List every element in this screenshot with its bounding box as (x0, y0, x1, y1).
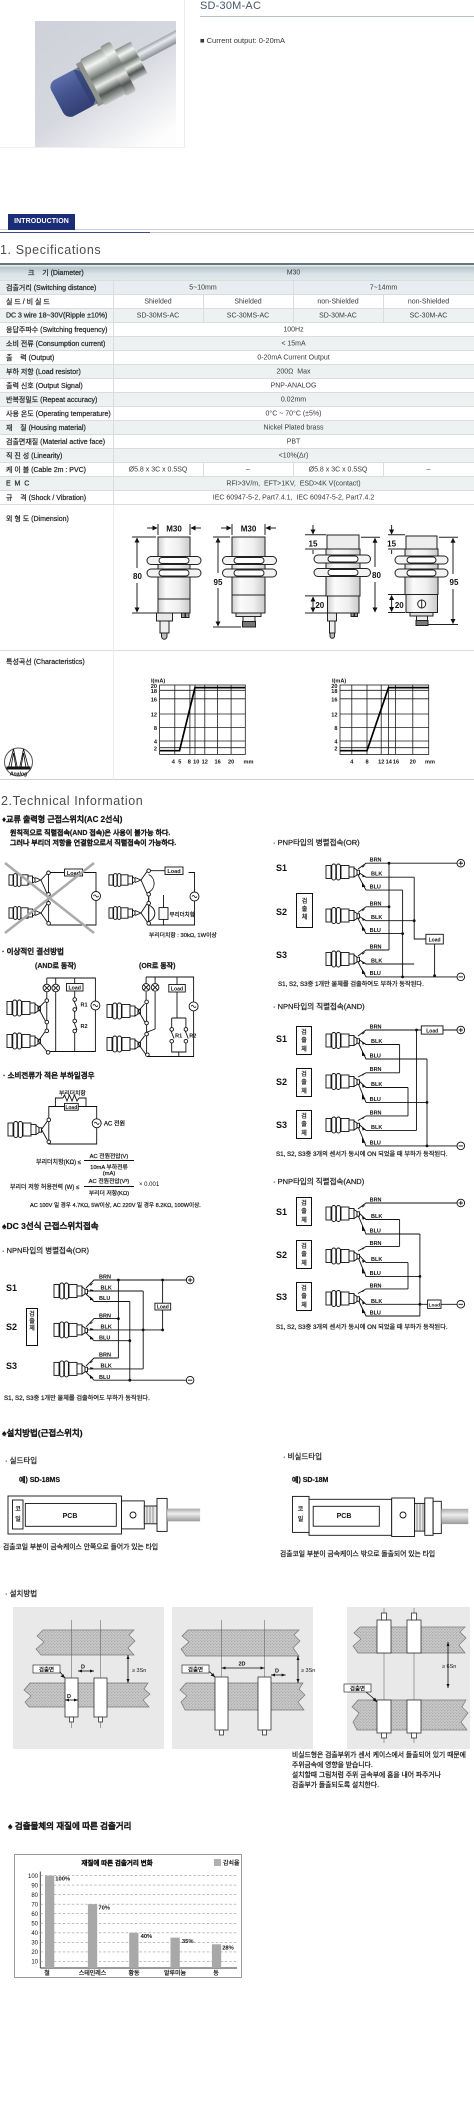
svg-text:D: D (275, 1669, 279, 1675)
arcs right (149, 875, 154, 893)
svg-text:14: 14 (386, 760, 393, 766)
r13 active face (0, 435, 474, 449)
dims D3 (305, 525, 380, 613)
Load box right (165, 867, 183, 875)
sensor body D1 (147, 537, 201, 639)
load box (428, 1300, 441, 1309)
DC3 NPN OR diagram (left) (0, 1255, 210, 1395)
svg-text:Load: Load (426, 1028, 438, 1034)
svg-text:검출면: 검출면 (188, 1666, 203, 1674)
contacts AND (45, 998, 76, 1054)
svg-text:BLU: BLU (370, 1097, 381, 1103)
Load box (65, 1103, 79, 1111)
load box (426, 934, 443, 944)
svg-text:2: 2 (154, 746, 157, 752)
AND circuit wires (47, 978, 96, 1052)
y labels (28, 1874, 39, 1966)
wire labels (370, 1025, 383, 1147)
svg-text:15: 15 (309, 540, 318, 549)
svg-text:BRN: BRN (370, 945, 382, 951)
sensors (326, 864, 360, 880)
svg-text:50: 50 (31, 1922, 38, 1928)
graph 1 curve (160, 688, 246, 751)
svg-text:R2: R2 (189, 1034, 196, 1040)
wires S1 (86, 1280, 186, 1302)
svg-text:M30: M30 (241, 525, 257, 534)
sensor 2 (right circuit) (109, 904, 148, 923)
sensors (326, 1206, 360, 1222)
svg-text:R1: R1 (175, 1034, 182, 1040)
junction dots (388, 862, 436, 979)
wire labels (370, 1198, 383, 1317)
r3 shield (0, 295, 474, 309)
svg-text:100%: 100% (55, 1877, 70, 1883)
wires S3 (86, 1358, 186, 1380)
r18 dimension (0, 505, 474, 651)
svg-text:≥ 3Sn: ≥ 3Sn (301, 1668, 315, 1674)
NPN AND (273, 1001, 365, 1012)
svg-text:70: 70 (31, 1903, 38, 1909)
svg-text:16: 16 (331, 698, 337, 704)
svg-text:일: 일 (298, 1515, 304, 1523)
S3 wires (358, 1116, 457, 1146)
svg-text:18: 18 (331, 689, 337, 695)
svg-text:20: 20 (228, 760, 234, 766)
wire loop right circuit (149, 871, 195, 925)
svg-text:BRN: BRN (370, 1067, 382, 1073)
r1 diameter (0, 265, 474, 281)
r12 housing (0, 421, 474, 435)
svg-text:mm: mm (244, 760, 254, 766)
svg-text:검출면: 검출면 (350, 1685, 365, 1693)
svg-text:BLU: BLU (99, 1375, 110, 1381)
S2 wires (358, 907, 414, 934)
svg-text:D: D (67, 1694, 71, 1700)
svg-text:검출면: 검출면 (39, 1666, 54, 1674)
wire arrows (362, 1032, 366, 1143)
svg-text:15: 15 (387, 540, 396, 549)
svg-text:BLK: BLK (371, 915, 382, 921)
r19 characteristics (0, 651, 474, 780)
target object box (26, 1308, 38, 1346)
svg-text:Load: Load (171, 987, 183, 993)
bleeder circuit (0, 1085, 130, 1150)
svg-text:BLK: BLK (371, 959, 382, 965)
svg-text:Load: Load (429, 1303, 441, 1309)
dimension drawings (0, 505, 474, 651)
wire loop left circuit (49, 873, 97, 926)
axes (40, 1872, 237, 1969)
sensor body D4 (395, 536, 448, 626)
svg-text:8: 8 (365, 760, 368, 766)
terminals (457, 1199, 465, 1207)
svg-text:70%: 70% (98, 1906, 110, 1912)
svg-text:16: 16 (214, 760, 220, 766)
dim M30 D2 (221, 524, 276, 535)
svg-text:4: 4 (154, 740, 158, 746)
ideal wiring (2, 946, 64, 957)
shielded cross-section (0, 1490, 210, 1540)
resistor zigzag (63, 1095, 79, 1101)
svg-text:BLK: BLK (371, 1125, 382, 1131)
graph 2 grid (340, 685, 429, 754)
wire arrows (362, 865, 366, 974)
PNP OR diagram (245, 845, 474, 990)
grid dashed (40, 1876, 237, 1962)
S labels (6, 1283, 17, 1293)
svg-text:BLK: BLK (371, 872, 382, 878)
svg-text:BLU: BLU (370, 971, 381, 977)
svg-text:12: 12 (151, 713, 157, 719)
low consumption load section (3, 1070, 95, 1081)
svg-text:BLK: BLK (371, 1257, 382, 1263)
svg-text:BLU: BLU (370, 1310, 381, 1316)
panel 1 (13, 1607, 164, 1749)
svg-text:동: 동 (213, 1970, 219, 1977)
svg-text:BRN: BRN (370, 1198, 382, 1204)
r2 switching distance (0, 281, 474, 295)
S2 wires (358, 1073, 427, 1103)
terminals (47, 1118, 51, 1144)
wires (49, 1098, 97, 1144)
S3 wires (358, 950, 457, 977)
unshielded cross-section (278, 1490, 474, 1540)
note (30, 1201, 201, 1209)
dims D4 (388, 525, 458, 625)
svg-text:16: 16 (151, 698, 157, 704)
svg-text:스테인레스: 스테인레스 (79, 1969, 107, 1977)
svg-text:4: 4 (172, 760, 176, 766)
PNP AND (273, 1176, 364, 1187)
svg-text:≥ 6Sn: ≥ 6Sn (442, 1664, 456, 1670)
junction dots (415, 1029, 428, 1148)
svg-text:Analog: Analog (9, 772, 28, 778)
svg-text:Load: Load (65, 1105, 77, 1111)
OR circuit wires (146, 977, 194, 1057)
relay coils AND (43, 984, 51, 992)
series links (400, 1030, 427, 1146)
AC source OR (189, 1002, 198, 1011)
svg-text:Load: Load (167, 869, 180, 875)
svg-text:40: 40 (31, 1931, 38, 1937)
sensor 2 (left circuit) (9, 904, 48, 923)
svg-text:20: 20 (410, 760, 416, 766)
S1 wires (358, 1203, 457, 1234)
r11 temperature (0, 407, 474, 421)
svg-text:12: 12 (202, 760, 208, 766)
svg-text:18: 18 (151, 689, 157, 695)
% labels (55, 1877, 234, 1952)
sensor body D2 (223, 537, 277, 627)
load box (155, 1303, 171, 1310)
svg-text:BRN: BRN (370, 1241, 382, 1247)
svg-text:Load: Load (68, 986, 80, 992)
flange disk (100, 41, 137, 96)
bleeder resistor box (159, 908, 168, 920)
svg-text:BLU: BLU (370, 1228, 381, 1234)
terminals (186, 1276, 194, 1284)
header photo area (35, 21, 176, 148)
wire labels (99, 1275, 112, 1381)
svg-text:20: 20 (395, 601, 404, 610)
svg-text:BLK: BLK (101, 1364, 112, 1370)
r10 repeat accuracy (0, 393, 474, 407)
svg-text:80: 80 (133, 572, 142, 581)
svg-text:12: 12 (331, 713, 337, 719)
svg-text:AC 전원: AC 전원 (104, 1120, 125, 1128)
X cross (5, 863, 94, 933)
Load box left (65, 869, 83, 877)
S1 wires (358, 1030, 457, 1059)
formula 2 (10, 1182, 79, 1191)
buses (389, 863, 435, 977)
svg-text:BRN: BRN (370, 1025, 382, 1031)
svg-text:BLK: BLK (371, 1299, 382, 1305)
svg-text:Load: Load (157, 1305, 169, 1311)
hex nut (79, 48, 125, 106)
svg-text:16: 16 (393, 760, 399, 766)
r17 shock/vibration (0, 491, 474, 505)
S2 wires (358, 1246, 420, 1276)
terminals left (47, 871, 51, 925)
wire arrows (90, 1283, 94, 1379)
svg-text:BRN: BRN (370, 1110, 382, 1116)
AC source left (92, 892, 101, 901)
r14 linearity (0, 449, 474, 463)
installation (5, 1588, 37, 1599)
svg-text:BLK: BLK (101, 1286, 112, 1292)
sensors OR (107, 1003, 145, 1022)
blue cap (48, 67, 98, 120)
panel 2 (172, 1607, 315, 1749)
horizontal line under header (0, 147, 184, 148)
svg-text:80: 80 (372, 571, 381, 580)
r4 models (0, 309, 474, 323)
svg-text:BLK: BLK (371, 1039, 382, 1045)
svg-text:8: 8 (188, 760, 191, 766)
shared symbol defs (0, 0, 1, 1)
svg-text:12: 12 (378, 760, 384, 766)
note text under panels (292, 1751, 466, 1791)
r5 frequency (0, 323, 474, 337)
svg-text:BRN: BRN (370, 1283, 382, 1289)
svg-text:2D: 2D (238, 1662, 245, 1668)
svg-text:≥ 3Sn: ≥ 3Sn (132, 1668, 146, 1674)
svg-text:80: 80 (31, 1893, 38, 1899)
svg-text:일: 일 (15, 1515, 21, 1523)
svg-text:10: 10 (31, 1960, 38, 1966)
svg-text:재질에 따른 검출거리 변화: 재질에 따른 검출거리 변화 (81, 1858, 152, 1867)
S3 wires (358, 1289, 457, 1316)
graph 2 curve (340, 688, 429, 751)
svg-text:BRN: BRN (99, 1275, 111, 1281)
sensor (8, 1121, 47, 1140)
contacts OR (145, 1000, 188, 1056)
series links (400, 1220, 420, 1317)
svg-text:4: 4 (334, 740, 338, 746)
graph 1 grid (160, 685, 246, 754)
svg-text:코: 코 (15, 1506, 21, 1513)
svg-text:8: 8 (154, 726, 157, 732)
r15 cable (0, 463, 474, 477)
svg-text:PCB: PCB (337, 1513, 352, 1520)
svg-text:철: 철 (44, 1969, 50, 1977)
r6 consumption (0, 337, 474, 351)
svg-text:100: 100 (28, 1874, 39, 1880)
sensors AND (7, 1000, 45, 1021)
analog icon (5, 748, 33, 778)
load box (421, 1026, 443, 1035)
terminals right (147, 869, 151, 925)
r9 output signal (0, 379, 474, 393)
AC source AND (91, 1001, 100, 1010)
svg-text:4: 4 (350, 760, 354, 766)
svg-text:8: 8 (334, 726, 337, 732)
characteristic graphs (0, 651, 474, 780)
svg-text:BLU: BLU (370, 1271, 381, 1277)
r16 EMC (0, 477, 474, 491)
sensors (54, 1283, 88, 1299)
svg-text:BRN: BRN (99, 1353, 111, 1359)
AND / OR relay circuits (0, 955, 240, 1065)
svg-text:BRN: BRN (370, 858, 382, 864)
svg-text:부리더치항: 부리더치항 (170, 911, 195, 919)
S1 wires (358, 863, 457, 890)
AC source (92, 1119, 101, 1128)
svg-text:BLK: BLK (371, 1214, 382, 1220)
svg-text:30: 30 (31, 1941, 38, 1947)
INTRODUCTION band (0, 229, 474, 230)
AC series circuits (0, 850, 240, 955)
svg-text:35%: 35% (182, 1939, 194, 1945)
svg-text:95: 95 (450, 578, 459, 587)
sensor body D3 (314, 535, 371, 638)
svg-text:BRN: BRN (370, 901, 382, 907)
svg-text:BLK: BLK (371, 1082, 382, 1088)
dim 95 D2 (213, 537, 241, 627)
dim 80 D1 (132, 537, 156, 613)
svg-text:28%: 28% (222, 1946, 234, 1952)
sensor 1 (right circuit) (109, 872, 147, 894)
AC source right (190, 892, 199, 901)
svg-text:Load: Load (429, 938, 441, 944)
buses (118, 1280, 162, 1380)
vertical divider (184, 0, 185, 148)
svg-text:코: 코 (298, 1506, 304, 1513)
svg-text:BLU: BLU (99, 1335, 110, 1341)
bars (45, 1876, 221, 1968)
svg-text:BLK: BLK (101, 1325, 112, 1331)
svg-text:R1: R1 (81, 1003, 88, 1009)
terminals (457, 1026, 465, 1034)
Load AND (67, 984, 84, 992)
svg-text:R2: R2 (81, 1024, 88, 1030)
svg-text:5: 5 (178, 760, 181, 766)
svg-text:BLU: BLU (99, 1296, 110, 1302)
Load OR (169, 985, 186, 993)
r7 output (0, 351, 474, 365)
svg-text:황동: 황동 (128, 1969, 140, 1977)
wire arrows (362, 1205, 366, 1314)
relay coils OR (142, 984, 150, 992)
svg-text:BLU: BLU (370, 928, 381, 934)
r8 load resistor (0, 365, 474, 379)
dim M30 D1 (147, 524, 201, 535)
svg-text:20: 20 (315, 601, 324, 610)
sensors (326, 1033, 360, 1049)
svg-text:감쇠율: 감쇠율 (223, 1859, 240, 1867)
1. Specifications heading (0, 243, 101, 257)
left column: AC 2-wire section (2, 814, 122, 825)
panel 3 (344, 1607, 470, 1749)
x labels (44, 1969, 219, 1977)
svg-text:BLU: BLU (370, 884, 381, 890)
svg-text:90: 90 (31, 1884, 38, 1890)
sensor 1 (left circuit) (9, 874, 47, 894)
svg-text:BLU: BLU (370, 1140, 381, 1146)
wire labels (370, 858, 383, 978)
svg-text:2: 2 (334, 746, 337, 752)
terminals (457, 859, 465, 867)
threaded rear (113, 42, 148, 83)
svg-text:BLU: BLU (370, 1053, 381, 1059)
svg-text:PCB: PCB (63, 1513, 78, 1520)
junction dots (117, 1279, 164, 1382)
cable (134, 17, 206, 63)
svg-text:40%: 40% (141, 1934, 153, 1940)
mounting panels (0, 1605, 474, 1755)
title (200, 0, 261, 12)
formula 1 (36, 1157, 81, 1166)
svg-text:95: 95 (214, 578, 223, 587)
svg-text:60: 60 (31, 1912, 38, 1918)
svg-text:D: D (81, 1665, 85, 1671)
svg-text:10: 10 (193, 760, 199, 766)
svg-text:20: 20 (31, 1950, 38, 1956)
wires S2 (86, 1319, 163, 1341)
junction dots (419, 1275, 422, 1306)
svg-text:BRN: BRN (99, 1313, 111, 1319)
svg-text:mm: mm (425, 760, 435, 766)
svg-text:알루미늄: 알루미늄 (164, 1969, 187, 1977)
svg-text:M30: M30 (166, 525, 182, 534)
DC 3 wire heading (2, 1220, 99, 1232)
